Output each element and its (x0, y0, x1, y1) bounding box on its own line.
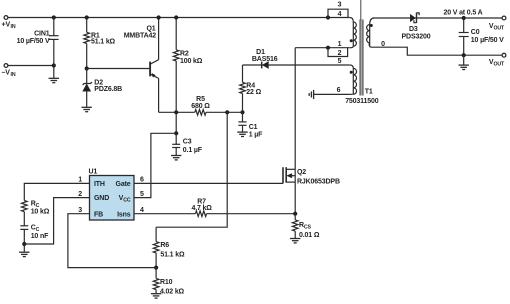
pin number 4 (T1) (338, 11, 342, 18)
wire VCC rail (Q1 emitter to R4/C1 node) with R5 (159, 110, 243, 116)
wire GND pin to CC node (24, 198, 89, 244)
wire pin 2 strap loop (328, 48, 348, 57)
svg-text:IN: IN (11, 72, 16, 78)
value label RCS 0.01 (299, 222, 320, 239)
svg-text:C0: C0 (471, 29, 480, 36)
wire riser VCC-rail junction down and across to R6 top (156, 112, 227, 227)
polarity dot auxiliary (350, 71, 353, 74)
resistor RC (21, 201, 27, 226)
transformer T1 primary winding (350, 18, 357, 48)
svg-text:ITH: ITH (94, 181, 105, 188)
capacitor C0 (459, 18, 469, 55)
node VOUT top label (489, 23, 505, 32)
junction C3 node (174, 131, 178, 135)
pin number 6 (T1) (337, 87, 341, 94)
value label R6 51.1k (160, 242, 185, 258)
junction CC/GND node (22, 242, 26, 246)
pin label ITH (94, 181, 105, 188)
pin number 3 (T1) (338, 2, 342, 9)
part label D1 BAS516 (252, 49, 278, 63)
wire base node to Q1 base (87, 68, 150, 70)
wire CIN1 node to ground (53, 66, 55, 78)
junction CIN1 top (52, 15, 56, 19)
svg-text:4.7 kΩ: 4.7 kΩ (191, 205, 212, 212)
wire aux pin 6 to ground (314, 93, 351, 95)
svg-text:4: 4 (140, 207, 144, 214)
svg-text:CC: CC (31, 225, 40, 234)
wire pin 4 strap loop (328, 9, 348, 17)
resistor R5 label 680 (191, 96, 210, 110)
zener diode D2 (83, 69, 92, 107)
transformer T1 auxiliary winding (350, 65, 357, 94)
svg-text:2: 2 (338, 50, 342, 57)
junction R2 top on top rail (174, 15, 178, 19)
svg-text:3: 3 (78, 207, 82, 214)
svg-text:BAS516: BAS516 (252, 56, 278, 63)
wire Isns pin rail with R7 (134, 211, 295, 217)
svg-text:10 µF/50 V: 10 µF/50 V (471, 37, 504, 44)
value label R2 100k (180, 50, 203, 65)
resistor RCS (292, 214, 298, 238)
resistor R10 (153, 268, 159, 294)
ground (RCS) (290, 239, 300, 243)
pin label FB (94, 211, 103, 218)
svg-text:6: 6 (140, 177, 144, 184)
ground (C3) (171, 156, 181, 160)
terminal VOUT bottom (502, 53, 506, 57)
op-amp U1 (controller block) (90, 176, 135, 221)
wire D1/pin5 rail (243, 64, 350, 66)
junction C0 top (462, 16, 466, 20)
svg-text:0.01 Ω: 0.01 Ω (299, 232, 320, 239)
svg-text:RJK0653DPB: RJK0653DPB (297, 178, 340, 185)
svg-text:C1: C1 (249, 124, 258, 131)
transistor Q2 (MOSFET) (283, 167, 295, 183)
resistor R1 (84, 18, 90, 69)
junction CIN1 bottom / -VIN ground (52, 63, 56, 67)
pin number 0 (T1) (381, 41, 385, 48)
junction RCS node (293, 212, 297, 216)
svg-text:4: 4 (338, 11, 342, 18)
capacitor CIN1 (49, 18, 59, 66)
node label 20V at 0.5A (443, 9, 482, 16)
junction pin 3/4 strap (326, 15, 330, 19)
value label CC 10nF (31, 225, 49, 240)
svg-text:Isns: Isns (117, 211, 131, 218)
svg-text:1: 1 (338, 41, 342, 48)
wire Gate pin to Q2 gate (134, 182, 283, 184)
wire CC node to ground (23, 244, 25, 252)
node -VIN label (2, 70, 16, 79)
svg-text:2: 2 (78, 191, 82, 198)
pin number 6 (140, 177, 144, 184)
junction R2/C3 riser on VCC rail (174, 110, 178, 114)
ground (input) (49, 78, 59, 82)
svg-text:VOUT: VOUT (489, 59, 505, 68)
svg-text:C3: C3 (183, 139, 192, 146)
svg-text:Q1: Q1 (146, 25, 155, 32)
svg-text:100 kΩ: 100 kΩ (180, 58, 203, 65)
resistor R2 (173, 18, 179, 113)
junction Q1 collector on top rail (157, 15, 161, 19)
wire Q2 source to RCS node (294, 182, 296, 214)
ground (aux pin 6, left-facing) (309, 90, 313, 99)
pin label Gate (116, 181, 131, 188)
value label C1 1uF (249, 124, 263, 139)
wire primary pins 1/2 rail (295, 47, 350, 49)
resistor R4 (240, 65, 246, 112)
pin number 1 (T1) (338, 41, 342, 48)
value label C0 10uF/50V (471, 29, 504, 44)
capacitor CC (20, 226, 28, 244)
svg-text:680 Ω: 680 Ω (191, 103, 210, 110)
wire top rail +VIN to transformer pin 3 (8, 17, 350, 19)
svg-text:FB: FB (94, 211, 103, 218)
node VOUT bottom label (489, 59, 505, 68)
junction R6 riser on VCC rail (225, 110, 229, 114)
svg-text:–V: –V (2, 70, 11, 77)
svg-text:R10: R10 (160, 279, 173, 286)
svg-text:1: 1 (78, 177, 82, 184)
transistor Q1 (150, 18, 159, 113)
terminal +VIN (4, 16, 8, 20)
node +VIN label (2, 22, 16, 31)
resistor R6 (153, 227, 159, 267)
svg-text:GND: GND (94, 195, 109, 202)
pin label Isns (117, 211, 131, 218)
svg-text:5: 5 (140, 191, 144, 198)
wire secondary top to VOUT (373, 17, 502, 19)
capacitor C1 (238, 112, 246, 131)
pin number 5 (T1) (338, 58, 342, 65)
pin number 3 (78, 207, 82, 214)
svg-text:3: 3 (338, 2, 342, 9)
wire R2 bottom down to C3 node (175, 112, 177, 133)
terminal VOUT top (502, 16, 506, 20)
wire secondary bottom (pin 0) to VOUT return (373, 47, 502, 55)
svg-text:0: 0 (381, 41, 385, 48)
svg-text:Gate: Gate (116, 181, 131, 188)
svg-text:Q2: Q2 (297, 169, 306, 176)
junction R1 top (85, 15, 89, 19)
pin number 2 (T1) (338, 50, 342, 57)
junction FB node (154, 266, 158, 270)
svg-text:T1: T1 (365, 89, 373, 96)
value label R1 51.1k (91, 32, 116, 45)
pin number 2 (78, 191, 82, 198)
svg-text:PDS3200: PDS3200 (402, 34, 431, 41)
part label T1 750311500 (345, 89, 379, 105)
polarity dot primary (350, 39, 353, 42)
svg-text:51.1 kΩ: 51.1 kΩ (91, 39, 116, 46)
svg-text:R5: R5 (196, 96, 205, 103)
svg-text:1 µF: 1 µF (249, 131, 263, 138)
wire ITH pin to RC (24, 183, 89, 200)
svg-text:10 nF: 10 nF (31, 233, 49, 240)
svg-text:R2: R2 (180, 50, 189, 57)
part label D3 PDS3200 (402, 26, 431, 41)
svg-text:D3: D3 (409, 26, 418, 33)
wire FB node to U1 FB pin (68, 214, 156, 268)
svg-text:51.1 kΩ: 51.1 kΩ (160, 251, 185, 258)
svg-text:CIN1: CIN1 (34, 30, 50, 37)
svg-text:10 kΩ: 10 kΩ (31, 208, 50, 215)
svg-text:D1: D1 (256, 49, 265, 56)
diode D1 (262, 62, 269, 69)
wire C0 node to ground (463, 55, 465, 64)
svg-text:20 V at 0.5 A: 20 V at 0.5 A (443, 9, 482, 16)
pin label GND (94, 195, 109, 202)
svg-text:750311500: 750311500 (345, 98, 379, 105)
svg-text:PDZ6.8B: PDZ6.8B (94, 86, 122, 93)
pin number 4 (140, 207, 144, 214)
wire C3 node to VCC pin riser (134, 133, 176, 197)
junction R1/D2/base node (85, 66, 89, 70)
junction R4/C1 node (240, 110, 244, 114)
resistor R7 label 4.7k (191, 198, 212, 212)
svg-text:6: 6 (337, 87, 341, 94)
wire Q2 drain riser to primary pin1/2 (294, 48, 296, 170)
junction C0 bottom (462, 53, 466, 57)
diode D3 (schottky) (410, 13, 419, 23)
pin label VCC (119, 195, 131, 204)
svg-text:0.1 µF: 0.1 µF (183, 147, 203, 154)
ground (D2) (82, 107, 92, 111)
svg-text:10 µF/50 V: 10 µF/50 V (17, 38, 50, 45)
junction pin 1/2 strap (326, 46, 330, 50)
value label RC 10k (31, 200, 50, 215)
part label U1 (89, 169, 98, 176)
capacitor C3 (172, 133, 180, 155)
ground (output) (459, 65, 469, 69)
svg-text:MMBTA42: MMBTA42 (124, 32, 157, 39)
part label Q2 RJK0653DPB (297, 169, 340, 185)
svg-text:R6: R6 (160, 242, 169, 249)
value label CIN1 10uF/50V (17, 30, 50, 45)
transformer T1 core (360, 0, 363, 96)
svg-text:U1: U1 (89, 169, 98, 176)
svg-text:22 Ω: 22 Ω (246, 89, 261, 96)
svg-text:RCS: RCS (299, 222, 312, 231)
svg-text:4.02 kΩ: 4.02 kΩ (160, 288, 185, 295)
ground (CC) (19, 252, 29, 256)
svg-text:IN: IN (11, 24, 16, 30)
pin number 1 (78, 177, 82, 184)
polarity dot secondary (370, 24, 373, 27)
part label Q1 MMBTA42 (124, 25, 157, 39)
ground (C1) (237, 132, 247, 136)
svg-text:5: 5 (338, 58, 342, 65)
ground (R10) (151, 294, 161, 298)
value label D2 PDZ6.8B (94, 79, 122, 93)
svg-text:VOUT: VOUT (489, 23, 505, 32)
pin number 5 (140, 191, 144, 198)
value label C3 0.1uF (183, 139, 203, 154)
value label R10 4.02k (160, 279, 185, 296)
transformer T1 secondary winding (367, 18, 374, 47)
value label R4 22 (246, 83, 261, 96)
wire -VIN to CIN1 ground node (8, 65, 54, 67)
terminal -VIN (4, 64, 8, 68)
svg-text:+V: +V (2, 22, 11, 29)
